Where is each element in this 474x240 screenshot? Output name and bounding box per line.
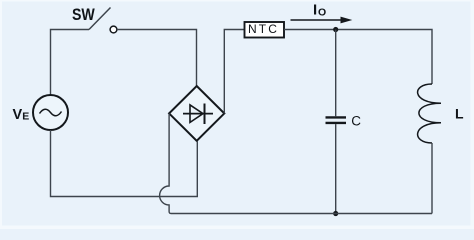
bridge rectifier diamond <box>169 86 224 141</box>
svg-text:O: O <box>318 7 326 19</box>
svg-text:V: V <box>13 107 23 123</box>
edge highlight top <box>0 0 474 2</box>
wire: coil to bottom rail <box>431 143 433 214</box>
svg-text:I: I <box>313 1 317 18</box>
diode cathode bar <box>204 104 206 125</box>
wire: junction down to capacitor <box>335 30 337 117</box>
wire: bridge left vertex down with hop over, then bottom rail <box>160 113 432 213</box>
wire: Ve top to switch <box>51 30 90 96</box>
wire: Ve bottom to bridge bottom vertex <box>51 130 198 197</box>
wire: switch to bridge top <box>117 30 197 87</box>
svg-text:NTC: NTC <box>248 22 279 36</box>
svg-text:C: C <box>351 114 361 129</box>
svg-text:SW: SW <box>72 6 95 24</box>
NTC box <box>245 22 285 38</box>
node top junction dot <box>333 27 338 32</box>
arrow I_O <box>291 19 342 21</box>
inductor L coil <box>418 84 441 143</box>
svg-text:L: L <box>455 105 464 121</box>
source V_E circle <box>33 95 68 130</box>
wire: capacitor to bottom rail <box>335 124 337 213</box>
capacitor C bottom plate <box>326 122 347 124</box>
wire: bridge right vertex to NTC <box>224 30 244 114</box>
svg-text:E: E <box>22 111 29 123</box>
node bottom junction dot <box>333 211 338 216</box>
edge highlight bottom <box>0 226 474 230</box>
wire: NTC to top-right corner and down to coil <box>284 30 432 85</box>
switch contact circle <box>110 26 117 33</box>
edge highlight left <box>0 0 2 229</box>
capacitor C top plate <box>326 116 347 118</box>
diode triangle <box>190 105 203 123</box>
edge highlight right <box>471 0 474 229</box>
sine wave inside source <box>40 109 62 116</box>
diode lead <box>183 113 213 115</box>
switch blade <box>89 8 111 30</box>
